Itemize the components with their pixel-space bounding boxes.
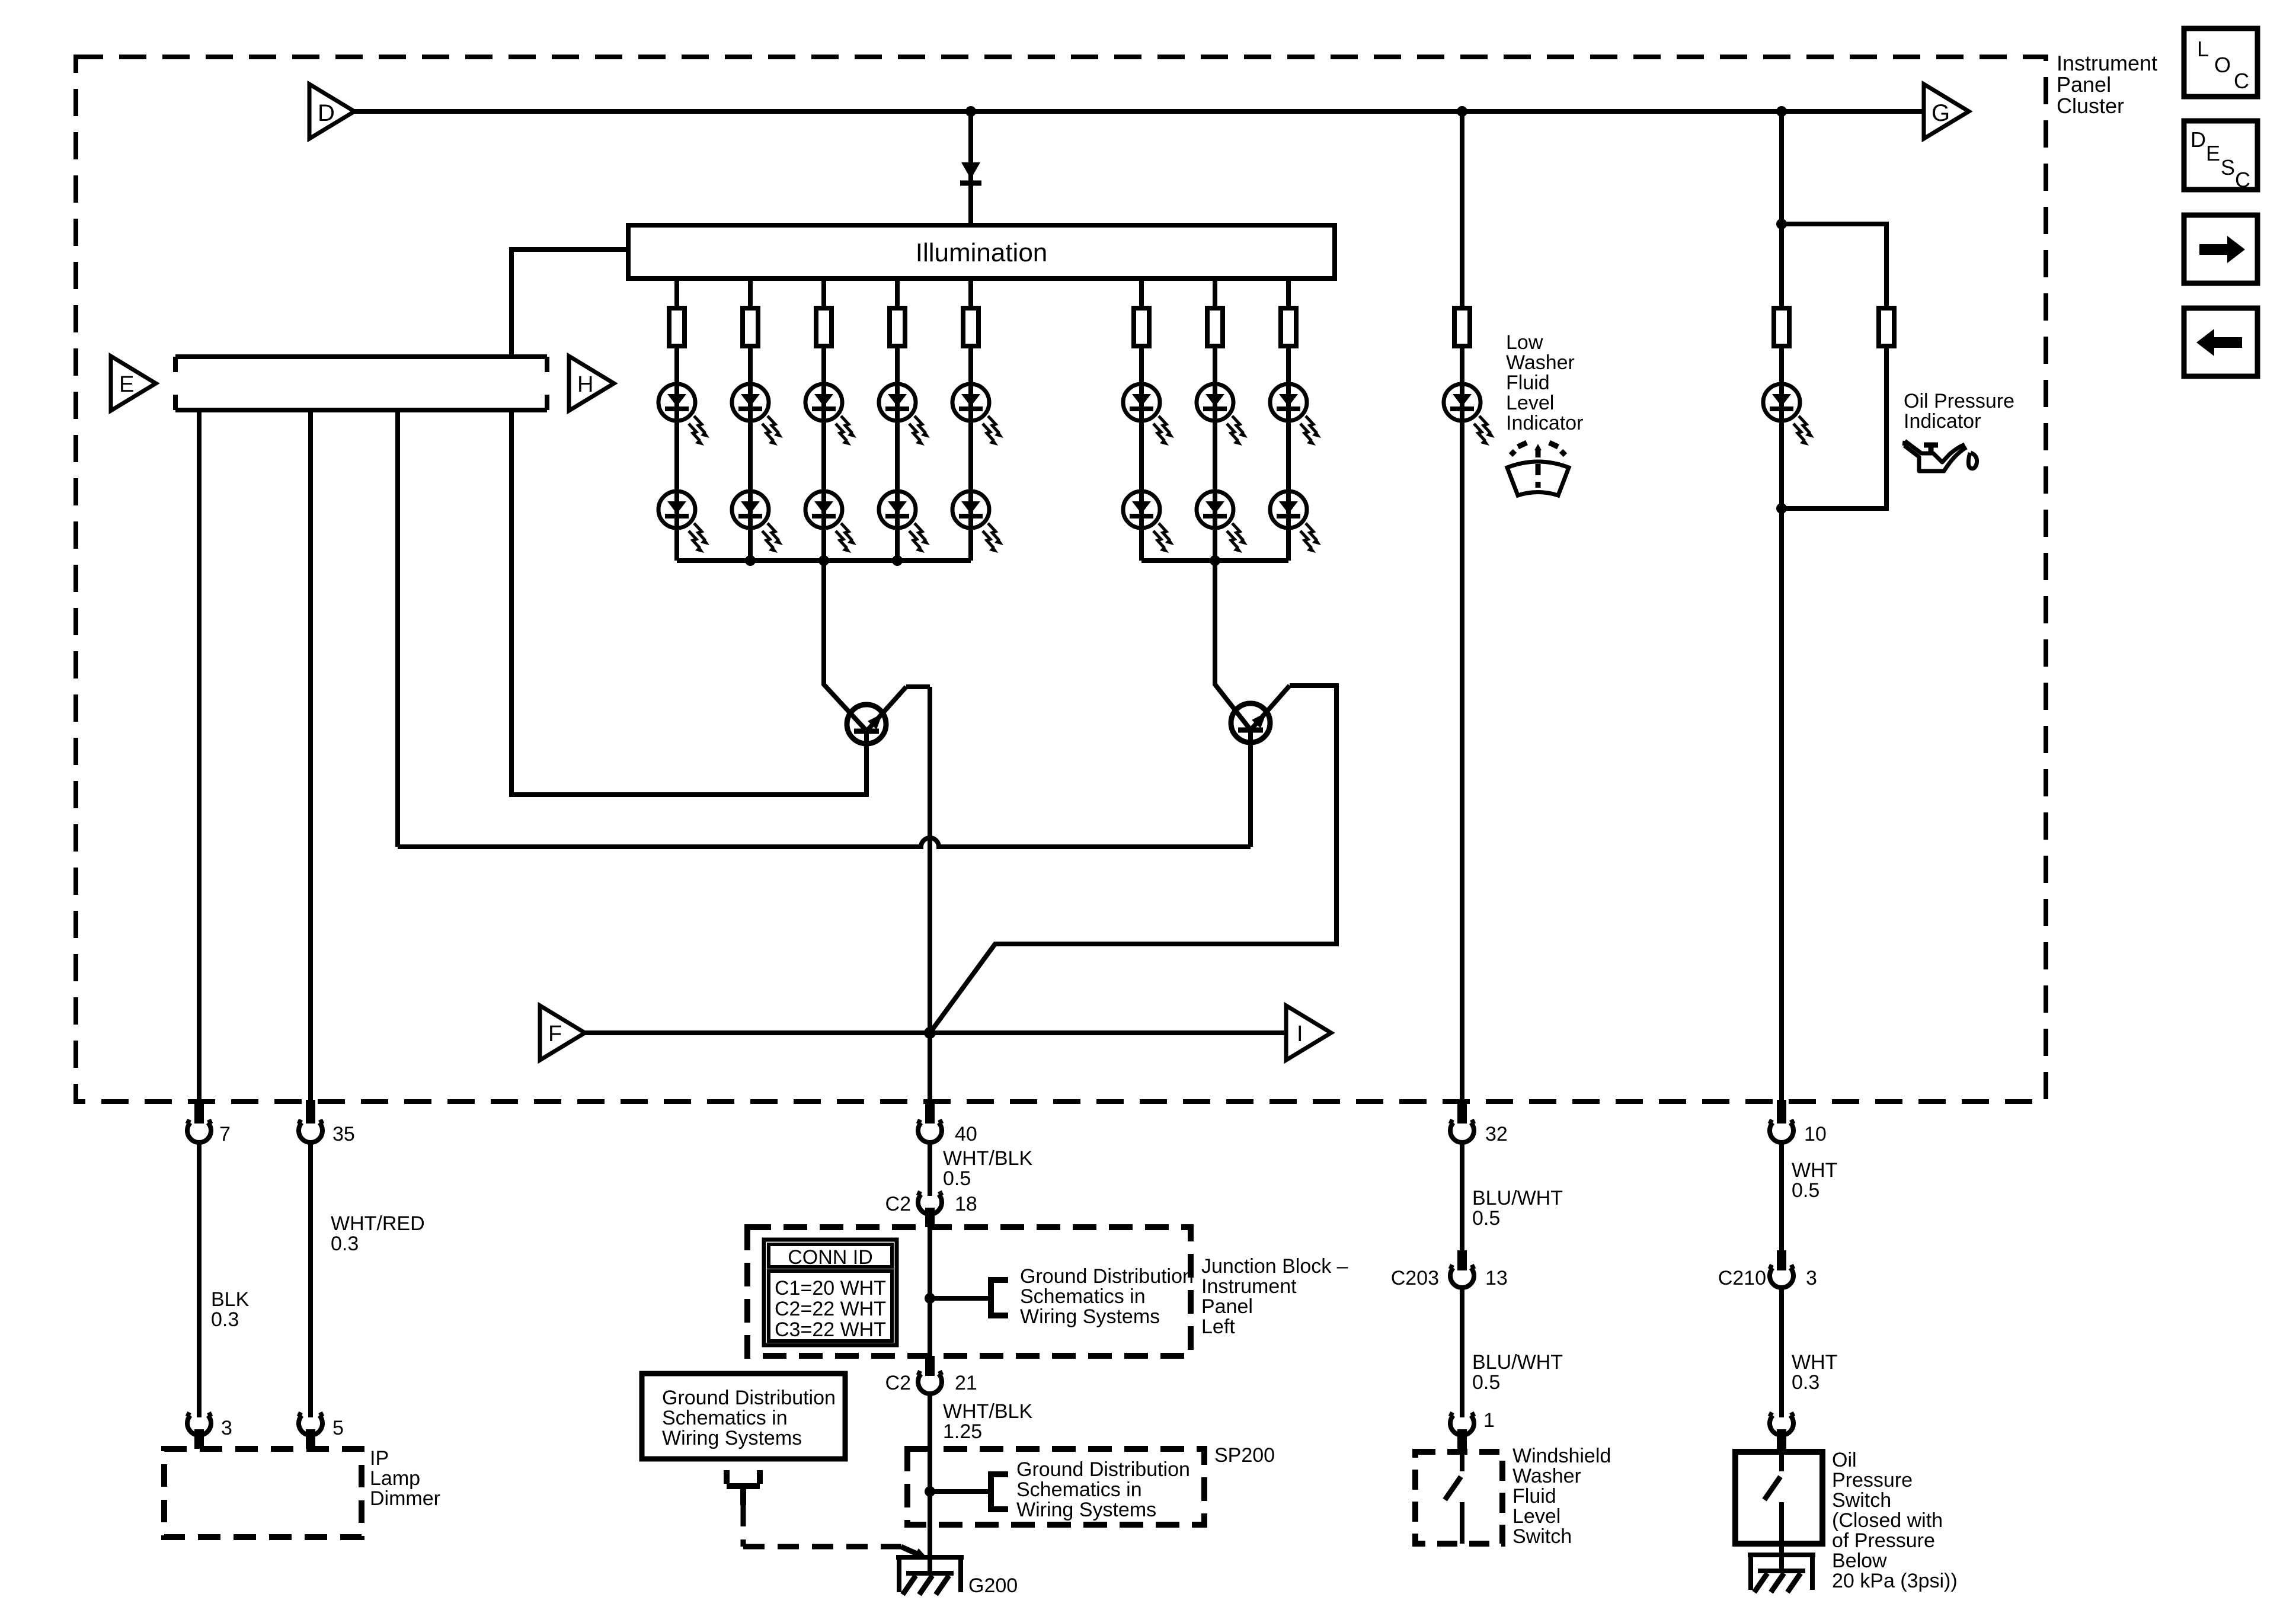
wire right bus to transistor Q2 [1215,561,1249,728]
resistor oil column main [1774,308,1789,346]
svg-text:S: S [2221,155,2235,180]
wire Q1 output to center column [906,684,930,689]
node junction dot washer column [1457,106,1467,117]
svg-text:C203: C203 [1391,1267,1439,1289]
wire E-H box drop 1 [197,410,202,1100]
connector triangle G [1924,84,1969,139]
SP200 dashed box [907,1449,1204,1525]
wire oil switch to ground [1779,1544,1784,1571]
node junction dot above Illumination [965,106,976,117]
bracket below left box with dashed pointer to G200 [727,1470,928,1559]
resistor R5 [963,308,978,346]
instrument panel cluster dashed boundary [76,57,2046,1102]
svg-text:C: C [2235,168,2250,192]
right arrow box [2184,215,2257,283]
LOC box [2184,28,2257,97]
connector pin 7 at boundary [187,1100,231,1145]
wire 35 down to IP lamp dimmer [308,1144,313,1417]
connector pin 3 IP lamp dimmer [187,1414,232,1449]
resistor R8 [1281,308,1296,346]
bracket link junction block ground distribution [930,1280,1008,1315]
node junction dot oil column [1776,106,1787,117]
Illumination box [628,225,1335,279]
ground G200 [896,1557,1018,1597]
resistor R2 [743,308,758,346]
connector pin 40 at boundary [917,1100,977,1145]
wire 7 down to IP lamp dimmer [197,1144,202,1417]
ground distribution reference box left [642,1374,845,1459]
junction dot at F-I crossing [924,1027,936,1039]
LED lamp B5 [952,491,1003,553]
wire Q2 output path to F-I crossing [930,686,1336,1033]
svg-text:F: F [548,1022,562,1046]
svg-text:13: 13 [1485,1267,1508,1289]
svg-text:35: 35 [332,1123,355,1145]
LED lamp A3 [805,384,856,446]
LED lamp B7 [1197,491,1248,553]
LED lamp B1 [658,491,709,553]
junction dot oil branch bottom [1776,503,1787,514]
connector pin 5 IP lamp dimmer [298,1414,344,1449]
connector triangle D [309,84,354,139]
wires LED row 1 to LED row 2 [677,421,1288,491]
wire oil column from D-G line down [1779,111,1784,1100]
node junction dot left bus 2 [818,555,829,566]
svg-text:18: 18 [955,1193,977,1215]
connector C2 pin 18 [885,1193,977,1228]
svg-text:3: 3 [221,1417,232,1439]
LED lamp A7 [1197,384,1248,446]
svg-text:L: L [2197,37,2209,61]
resistor R1 [669,308,685,346]
junction dot on right bus [1210,555,1220,566]
switch blade washer [1445,1452,1462,1544]
svg-text:7: 7 [219,1123,231,1145]
junction dot in junction block [925,1293,935,1304]
wire stubs Illumination box bottom to resistors [677,279,1288,308]
svg-text:C1=20 WHTC2=22 WHTC3=22 WHT: C1=20 WHTC2=22 WHTC3=22 WHT [775,1277,886,1341]
wire F to I [585,1030,1286,1035]
LED lamp A2 [732,384,783,446]
IP lamp dimmer dashed box [164,1449,362,1537]
svg-text:C2: C2 [885,1372,911,1394]
wire washer column from D-G line down [1460,111,1464,1100]
LED lamp A5 [952,384,1003,446]
CONN ID table [764,1240,897,1345]
junction block dashed box [747,1227,1191,1356]
wire from D-G line down to diode and Illumination [968,111,973,225]
connector triangle F [540,1006,585,1060]
wire loop below E-H box to transistor Q1 emitter [511,410,866,795]
LED lamp B2 [732,491,783,553]
svg-text:1: 1 [1483,1409,1495,1432]
windshield washer fluid level switch dashed box [1415,1452,1502,1544]
connector triangle E [111,356,156,411]
switch blade oil [1764,1452,1782,1544]
LED oil pressure indicator [1763,384,1814,446]
connector triangle H [569,356,614,411]
svg-text:C: C [2234,69,2249,93]
wire 10 to C210 [1779,1144,1784,1250]
svg-text:I: I [1297,1022,1303,1046]
wires resistors to LED row 1 [677,346,1288,384]
bracket link SP200 ground distribution [930,1474,1008,1509]
wire Illumination left side to loop [511,249,628,357]
LED lamp B6 [1123,491,1174,553]
DESC box [2184,121,2257,192]
resistor R6 [1134,308,1149,346]
wire 32 to C203 [1460,1144,1464,1250]
connector pin 32 at boundary [1450,1100,1508,1145]
wire D to G [354,109,1924,114]
wire Q1 base down and Q2 base link with hop over center column [398,730,1251,847]
connector triangle I [1286,1006,1331,1060]
resistor oil branch [1879,308,1894,346]
LED lamp B8 [1270,491,1321,553]
wire C2-21 down to G200 [928,1395,932,1571]
svg-text:C2: C2 [885,1193,911,1215]
junction dot SP200 [925,1486,935,1497]
resistor R4 [890,308,905,346]
oil can icon [1904,441,1977,471]
LED lamp A6 [1123,384,1174,446]
washer fluid icon [1507,443,1569,495]
LED lamp A1 [658,384,709,446]
svg-text:32: 32 [1485,1123,1508,1145]
transistor Q1 [847,687,906,744]
LED lamp B4 [879,491,930,553]
connector pin oil switch [1769,1414,1795,1451]
wires LED row 2 to bus [677,528,1288,561]
LED lamp A4 [879,384,930,446]
diode CR (anode down) [960,162,981,183]
LED lamp B3 [805,491,856,553]
left LED group bus [677,558,971,563]
svg-text:21: 21 [955,1372,977,1394]
connector C210 pin 3 [1718,1250,1817,1289]
svg-text:E: E [2206,141,2220,165]
right LED group bus [1141,558,1288,563]
LED lamp A8 [1270,384,1321,446]
wire C210 to oil switch connector [1779,1288,1784,1417]
svg-text:CONN ID: CONN ID [788,1246,873,1269]
wire E-H box drop 3 to Q2 base line [395,410,400,847]
connector C2 pin 21 [885,1356,977,1394]
svg-text:D: D [318,100,335,126]
resistor R3 [816,308,832,346]
svg-text:5: 5 [332,1417,344,1439]
node junction dot left bus 1 [745,555,756,566]
oil pressure switch box [1735,1452,1822,1544]
svg-text:SP200: SP200 [1214,1444,1275,1467]
wire 40 to C2-18 [928,1144,932,1196]
LED low washer fluid indicator [1444,384,1495,446]
svg-text:G: G [1932,100,1950,126]
resistor R7 [1207,308,1223,346]
connector pin 1 washer switch [1450,1409,1495,1451]
resistor washer column [1454,308,1470,346]
wire through junction block [928,1227,932,1356]
svg-text:C210: C210 [1718,1267,1766,1289]
svg-text:D: D [2191,127,2206,152]
svg-text:G200: G200 [968,1574,1018,1597]
connector pin 10 at boundary [1769,1100,1827,1145]
E-H bus box [175,357,547,410]
wire C203 to washer switch connector [1460,1288,1464,1417]
node junction dot left bus 3 [892,555,903,566]
svg-text:40: 40 [955,1123,977,1145]
center column wire down to F-I crossing and to connector 40 [928,687,932,1100]
wire left bus to transistor Q1 [824,561,865,729]
svg-text:10: 10 [1804,1123,1827,1145]
ground below oil pressure switch [1748,1555,1815,1592]
svg-text:3: 3 [1806,1267,1817,1289]
wire E-H box drop 2 [308,410,313,1100]
junction dot oil branch top [1776,219,1787,229]
oil parallel branch wire [1782,224,1886,508]
connector pin 35 at boundary [298,1100,355,1145]
svg-text:E: E [119,372,134,397]
transistor Q2 [1231,686,1290,742]
svg-text:Illumination: Illumination [916,238,1048,267]
left arrow box [2184,308,2257,376]
connector C203 pin 13 [1391,1250,1508,1289]
svg-text:H: H [577,372,593,397]
svg-text:O: O [2214,53,2231,77]
